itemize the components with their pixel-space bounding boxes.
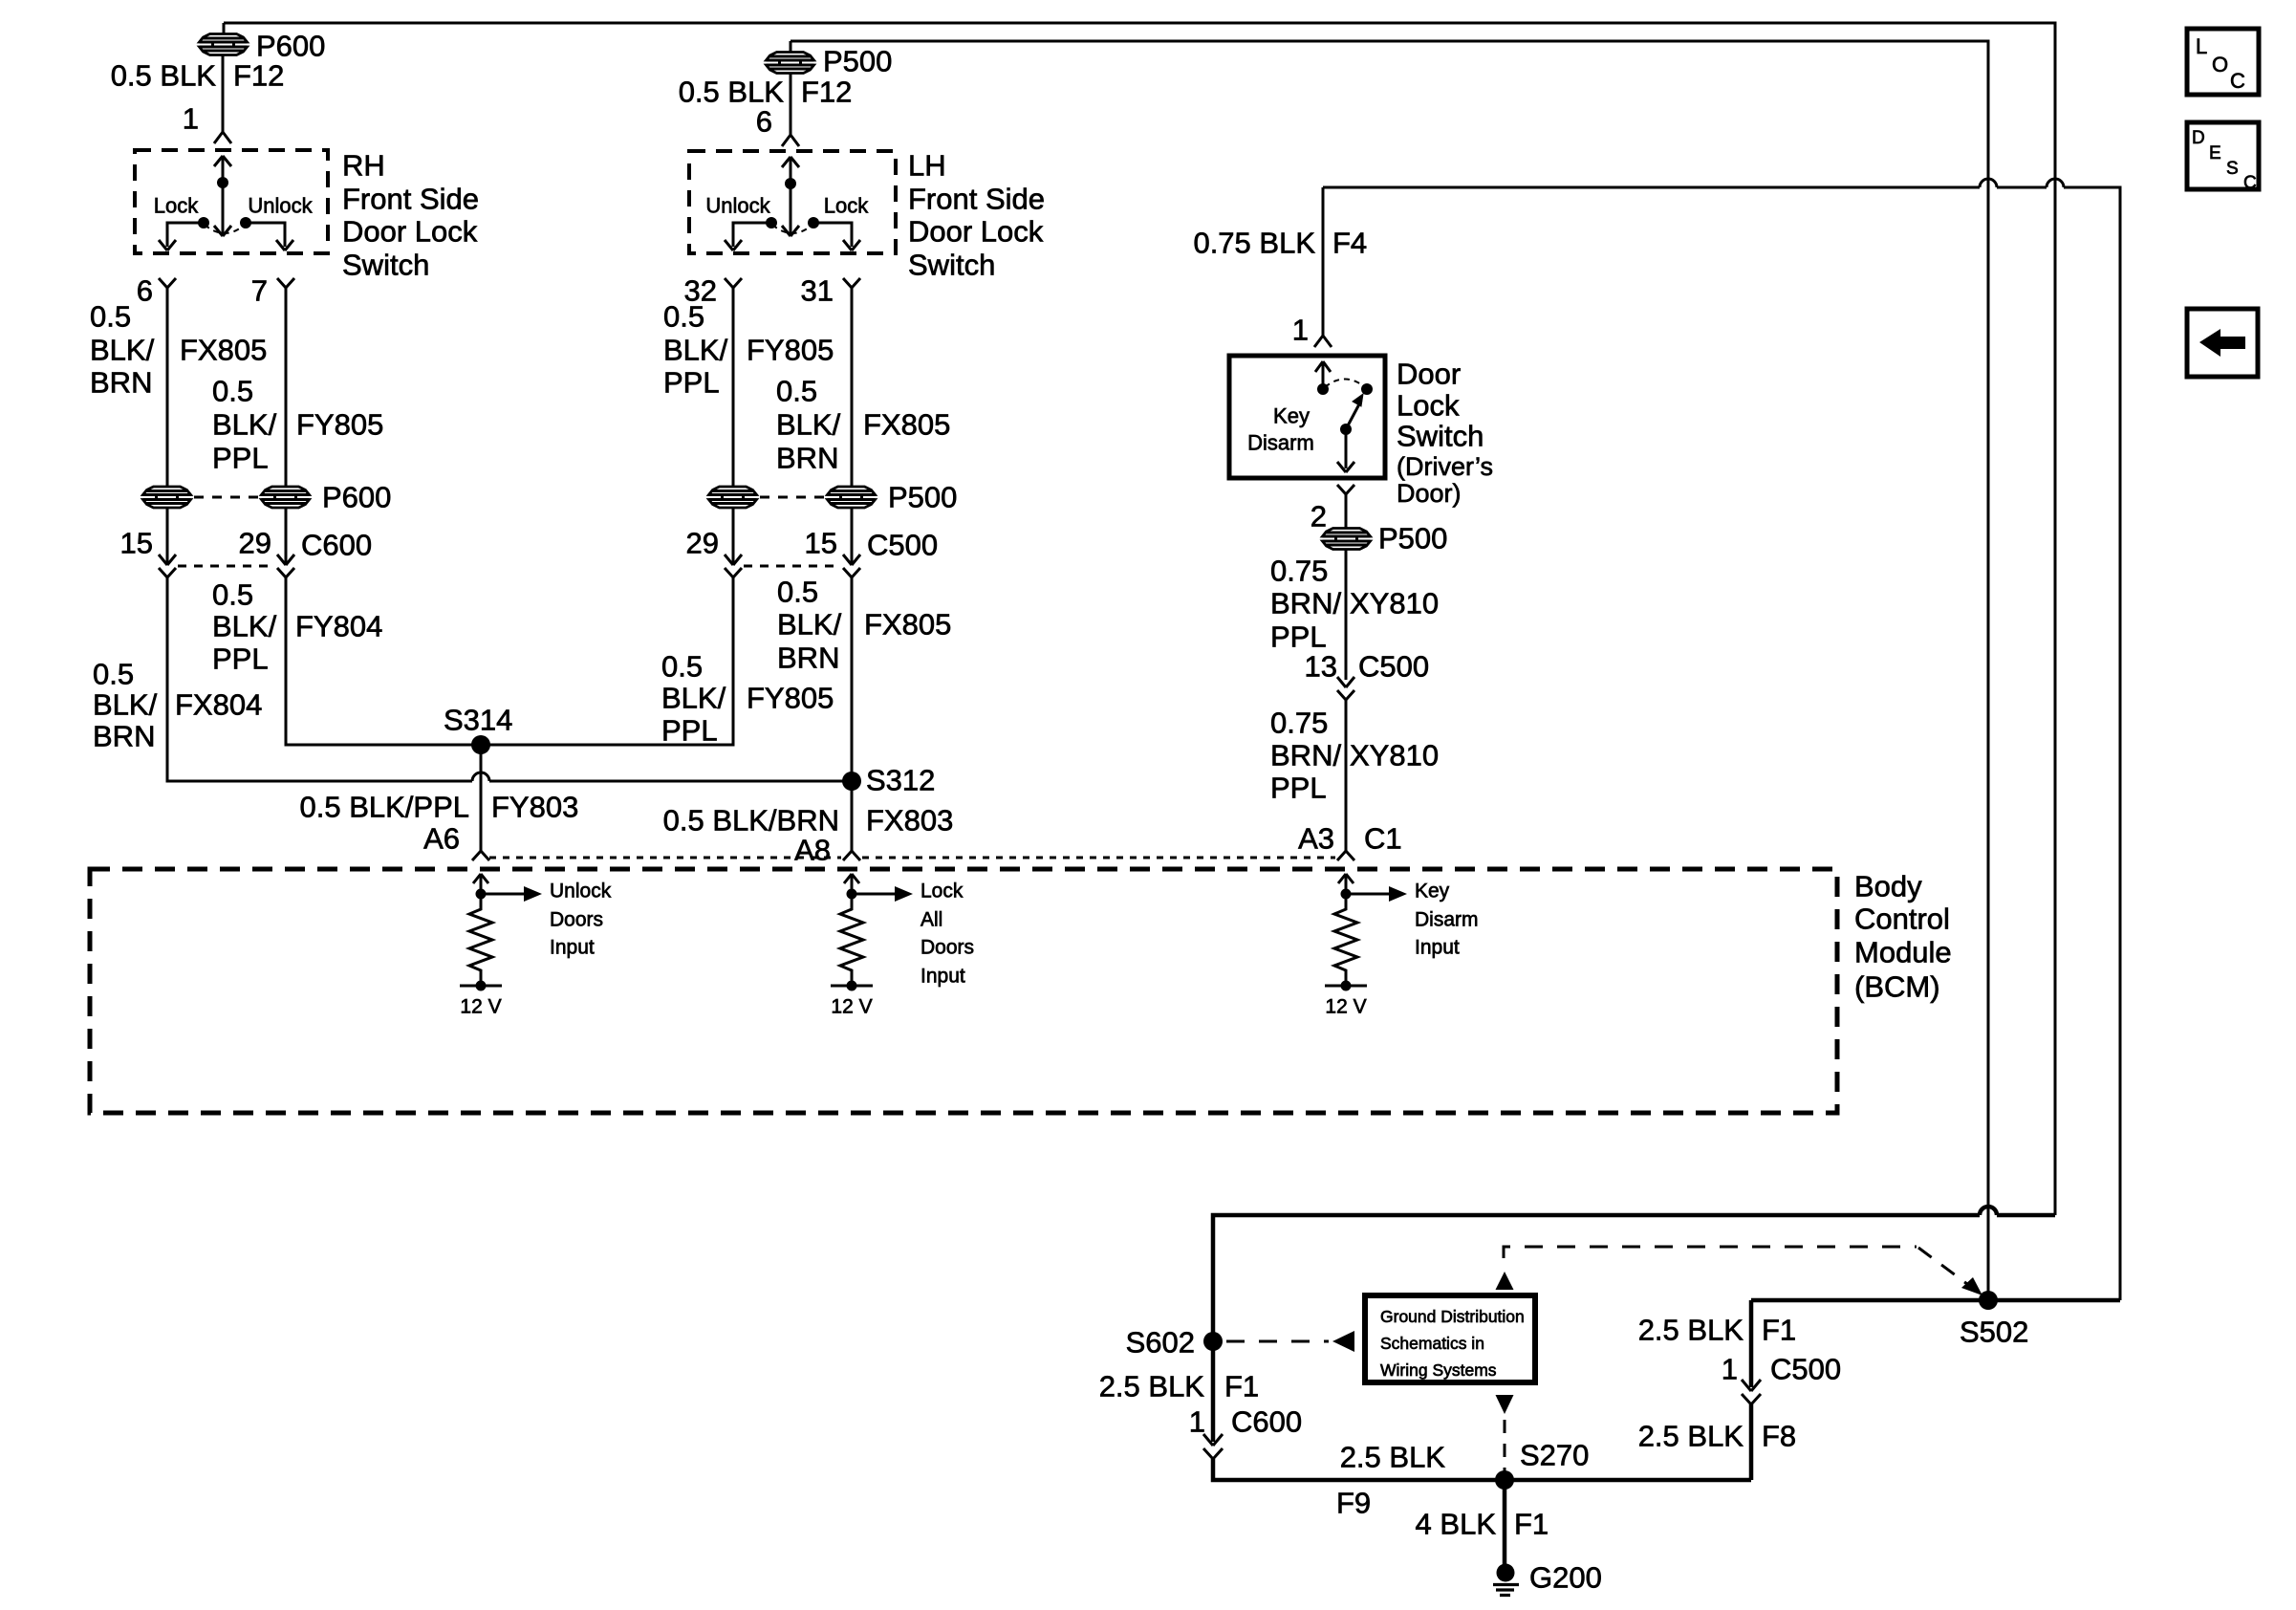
- wire S602 leg down to C600: [1211, 1346, 1216, 1442]
- wire pin6 down to P600 lower: [166, 288, 169, 488]
- svg-text:1: 1: [183, 102, 199, 136]
- dashed link: box bottom to S270: [1504, 1420, 1506, 1472]
- svg-text:1: 1: [1292, 314, 1309, 347]
- connector P600 (lower, right half): [262, 487, 310, 508]
- svg-text:A3: A3: [1298, 822, 1334, 856]
- RH switch: Lock contact branch to pin 6: [159, 217, 209, 250]
- svg-text:2.5 BLK: 2.5 BLK: [1638, 1420, 1744, 1453]
- terminal A8: [843, 851, 860, 860]
- svg-text:PPL: PPL: [661, 714, 718, 748]
- junction S602: [1203, 1332, 1223, 1351]
- DESC reference box: [2187, 122, 2259, 193]
- svg-text:4 BLK: 4 BLK: [1416, 1508, 1497, 1541]
- svg-text:BRN: BRN: [776, 442, 838, 475]
- key switch: movable arm with arrowhead: [1340, 394, 1363, 435]
- wire pin31 down to P500 lower: [851, 288, 854, 488]
- LH switch: Unlock contact branch to pin 32: [725, 217, 777, 250]
- svg-text:S502: S502: [1960, 1316, 2028, 1349]
- svg-text:S: S: [2226, 159, 2239, 179]
- connector P500 (lower, left half): [709, 487, 757, 508]
- terminal pin 2: [1337, 485, 1354, 494]
- terminal pin 31: [843, 278, 860, 288]
- wire: S502 horizontal (left to C500 leg, right to vertical C): [1751, 1298, 2120, 1303]
- svg-text:0.5 BLK: 0.5 BLK: [111, 59, 217, 93]
- wire S270 to G200: [1503, 1480, 1507, 1568]
- svg-text:C600: C600: [1231, 1405, 1302, 1439]
- svg-text:0.5: 0.5: [663, 300, 704, 334]
- svg-text:Disarm: Disarm: [1415, 909, 1479, 931]
- svg-text:P600: P600: [256, 30, 325, 63]
- svg-text:0.5: 0.5: [776, 375, 817, 408]
- wire FY805: pin32 wire down and left to S314: [481, 577, 733, 745]
- svg-text:Switch: Switch: [342, 249, 429, 282]
- svg-text:(BCM): (BCM): [1854, 970, 1940, 1004]
- svg-text:0.5 BLK/PPL: 0.5 BLK/PPL: [299, 791, 469, 824]
- svg-text:Unlock: Unlock: [705, 194, 770, 218]
- svg-text:PPL: PPL: [663, 366, 720, 400]
- dashed link between P500 halves: [760, 496, 824, 499]
- LOC reference box: [2187, 29, 2259, 95]
- svg-text:S314: S314: [444, 704, 512, 737]
- svg-text:F1: F1: [1514, 1508, 1549, 1541]
- svg-text:0.5: 0.5: [212, 578, 253, 612]
- svg-text:31: 31: [801, 274, 834, 308]
- svg-text:Switch: Switch: [1397, 420, 1484, 453]
- RH switch: common pole double arrow: [214, 156, 231, 236]
- BCM input A6: arrow, node, resistor to 12V: [460, 874, 542, 991]
- connector P500 (key column): [1323, 529, 1371, 550]
- svg-text:FX805: FX805: [864, 608, 951, 642]
- svg-text:FY803: FY803: [491, 791, 578, 824]
- RH switch: Unlock contact branch to pin 7: [240, 217, 293, 250]
- svg-text:A8: A8: [794, 834, 831, 867]
- RH Front Side Door Lock Switch box (dashed): [135, 150, 328, 253]
- wire C600 to bottom ground line: [1213, 1459, 1751, 1480]
- svg-text:PPL: PPL: [212, 642, 269, 676]
- wire hop: rail C over vertical A: [2047, 179, 2064, 187]
- wire: rail C (0.75 BLK F4 from door lock switch to right side) with hops over verticals: [1323, 187, 2120, 1300]
- svg-text:12 V: 12 V: [1325, 996, 1366, 1018]
- svg-text:F1: F1: [1762, 1314, 1796, 1347]
- svg-text:C600: C600: [301, 529, 372, 562]
- wire pin7 below P600 to C600: [285, 508, 288, 565]
- svg-text:Unlock: Unlock: [550, 881, 612, 903]
- wire pin 2 to P500: [1345, 494, 1348, 529]
- svg-text:BRN/: BRN/: [1270, 739, 1341, 772]
- svg-text:0.75: 0.75: [1270, 707, 1328, 740]
- svg-text:Lock: Lock: [921, 881, 964, 903]
- svg-text:BLK/: BLK/: [661, 682, 726, 715]
- connector P500 (lower, right half): [828, 487, 876, 508]
- BCM input A8: arrow, node, resistor to 12V: [831, 874, 913, 991]
- svg-text:Door Lock: Door Lock: [908, 215, 1044, 249]
- terminal pin 7: [277, 278, 294, 288]
- svg-text:BRN/: BRN/: [1270, 587, 1341, 620]
- wire: C500 ground leg down: [1749, 1300, 1754, 1387]
- svg-text:Lock: Lock: [154, 194, 199, 218]
- svg-text:F1: F1: [1224, 1370, 1259, 1403]
- svg-text:0.5: 0.5: [777, 576, 818, 609]
- svg-text:F8: F8: [1762, 1420, 1796, 1453]
- svg-text:All: All: [921, 909, 942, 931]
- svg-text:0.5: 0.5: [212, 375, 253, 408]
- BCM input A3: arrow, node, resistor to 12V: [1325, 874, 1407, 991]
- wire below P500 to C500: [1345, 550, 1348, 681]
- wire hop: ground rail over vertical B: [1980, 1207, 1997, 1215]
- arrowhead into S502: [1961, 1277, 1982, 1295]
- svg-text:S312: S312: [866, 764, 935, 797]
- terminal pin 1 of RH switch: [214, 132, 231, 143]
- wire S314 down to A6: [480, 745, 483, 851]
- dashed reference line from S602 to Ground Distribution box: [1226, 1340, 1329, 1343]
- svg-text:12 V: 12 V: [460, 996, 501, 1018]
- svg-text:Front Side: Front Side: [908, 183, 1045, 216]
- svg-text:BLK/: BLK/: [93, 688, 158, 722]
- wire pin31 below P500 to C500: [851, 508, 854, 565]
- Door Lock Switch box (solid): [1229, 356, 1385, 478]
- wire hop: rail C over vertical B: [1980, 179, 1997, 187]
- svg-text:FX804: FX804: [175, 688, 262, 722]
- svg-text:BLK/: BLK/: [777, 608, 842, 642]
- svg-text:Ground Distribution: Ground Distribution: [1380, 1307, 1525, 1326]
- up triangle above Ground Distribution box: [1496, 1272, 1514, 1290]
- svg-text:BLK/: BLK/: [212, 408, 277, 442]
- svg-text:Door: Door: [1397, 358, 1461, 391]
- svg-text:FY805: FY805: [747, 682, 834, 715]
- Ground Distribution Schematics box: [1365, 1295, 1535, 1382]
- junction S270: [1495, 1470, 1514, 1490]
- svg-text:0.5 BLK: 0.5 BLK: [679, 76, 785, 109]
- svg-text:BRN: BRN: [90, 366, 152, 400]
- svg-text:XY810: XY810: [1350, 587, 1439, 620]
- svg-text:Input: Input: [550, 937, 595, 959]
- svg-text:Switch: Switch: [908, 249, 995, 282]
- svg-text:Unlock: Unlock: [248, 194, 313, 218]
- Body Control Module box (dashed): [90, 869, 1837, 1113]
- svg-text:C500: C500: [1358, 650, 1429, 684]
- svg-text:1: 1: [1722, 1353, 1738, 1386]
- wire C500 to bottom ground line: [1749, 1404, 1754, 1480]
- svg-text:FY805: FY805: [296, 408, 383, 442]
- svg-text:LH: LH: [908, 149, 946, 183]
- svg-text:0.75 BLK: 0.75 BLK: [1193, 227, 1315, 260]
- svg-text:Module: Module: [1854, 936, 1952, 969]
- svg-text:G200: G200: [1529, 1561, 1602, 1595]
- svg-text:PPL: PPL: [1270, 772, 1327, 805]
- svg-text:29: 29: [686, 527, 719, 560]
- svg-text:1: 1: [1189, 1405, 1205, 1439]
- svg-text:S270: S270: [1520, 1439, 1589, 1472]
- svg-text:S602: S602: [1126, 1326, 1195, 1360]
- svg-text:6: 6: [137, 274, 153, 308]
- svg-text:(Driver’s: (Driver’s: [1397, 452, 1493, 481]
- svg-text:Door Lock: Door Lock: [342, 215, 478, 249]
- terminal A6: [472, 851, 489, 860]
- wire pin32 down to P500 lower: [732, 288, 735, 488]
- svg-text:Door): Door): [1397, 479, 1462, 508]
- svg-text:BLK/: BLK/: [776, 408, 841, 442]
- connector C500 crossing: arrows and terminals: [725, 555, 860, 577]
- svg-text:P600: P600: [322, 481, 391, 514]
- svg-text:0.75: 0.75: [1270, 555, 1328, 588]
- connector C500 crossing (key column): [1337, 677, 1354, 700]
- svg-text:Schematics in: Schematics in: [1380, 1334, 1484, 1353]
- svg-text:Doors: Doors: [921, 937, 974, 959]
- connector face dashed line (C1) along BCM top: [489, 857, 1335, 859]
- wire pin7 down to P600 lower: [285, 288, 288, 488]
- key switch: dashed throw arc: [1325, 380, 1365, 388]
- svg-text:C1: C1: [1364, 822, 1402, 856]
- wire: top rail B (0.5 BLK F12 from P500 to right side): [791, 41, 1988, 1295]
- svg-text:12 V: 12 V: [831, 996, 872, 1018]
- svg-text:F12: F12: [801, 76, 852, 109]
- junction S502: [1979, 1291, 1998, 1310]
- svg-text:Body: Body: [1854, 870, 1922, 903]
- svg-text:D: D: [2192, 128, 2205, 148]
- wire FX805: pin31 wire down through S312 to A8: [851, 577, 854, 851]
- svg-text:BLK/: BLK/: [90, 334, 155, 367]
- svg-text:P500: P500: [888, 481, 957, 514]
- back-arrow reference box: [2187, 309, 2258, 377]
- svg-text:6: 6: [756, 105, 772, 139]
- svg-text:RH: RH: [342, 149, 385, 183]
- svg-text:XY810: XY810: [1350, 739, 1439, 772]
- terminal pin 32: [725, 278, 742, 288]
- svg-text:PPL: PPL: [1270, 620, 1327, 654]
- svg-text:C500: C500: [1770, 1353, 1841, 1386]
- svg-text:2.5 BLK: 2.5 BLK: [1340, 1441, 1446, 1474]
- svg-text:Lock: Lock: [1397, 389, 1460, 423]
- svg-text:Input: Input: [921, 966, 965, 988]
- wire: ground rail from vertical A to S602 leg (with hop over vertical B): [1213, 1215, 2055, 1337]
- svg-text:FY805: FY805: [747, 334, 834, 367]
- svg-text:BRN: BRN: [93, 720, 155, 753]
- svg-text:Key: Key: [1415, 881, 1450, 903]
- svg-text:Doors: Doors: [550, 909, 603, 931]
- connector C600 crossing (ground leg): [1203, 1434, 1223, 1459]
- svg-text:7: 7: [251, 274, 268, 308]
- wire FX804: pin15 wire down and right to S312: [167, 577, 852, 781]
- connector P600 (lower, left half): [143, 487, 191, 508]
- terminal pin 1 of key switch: [1314, 336, 1332, 347]
- connector C600 crossing: arrows and terminals: [159, 555, 294, 577]
- svg-text:0.5: 0.5: [661, 650, 703, 684]
- svg-text:2: 2: [1310, 500, 1327, 533]
- svg-text:F9: F9: [1336, 1487, 1371, 1520]
- terminal A3: [1337, 851, 1354, 860]
- junction S312: [842, 772, 861, 791]
- LH switch: dashed throw arc: [772, 225, 812, 233]
- svg-text:Wiring Systems: Wiring Systems: [1380, 1360, 1497, 1380]
- terminal pin 6 of LH switch: [782, 135, 799, 146]
- svg-text:FX805: FX805: [863, 408, 950, 442]
- ground G200 symbol: [1493, 1564, 1519, 1596]
- svg-text:P500: P500: [823, 45, 892, 78]
- svg-text:Lock: Lock: [824, 194, 869, 218]
- svg-text:FY804: FY804: [295, 610, 382, 643]
- svg-text:Input: Input: [1415, 937, 1460, 959]
- wire 0.75 BLK F4 down to key switch: [1322, 187, 1325, 336]
- wire hop: S312 line over A6 vertical: [472, 772, 489, 781]
- svg-text:2.5 BLK: 2.5 BLK: [1638, 1314, 1744, 1347]
- wire pin6 below P600 to C600: [166, 508, 169, 565]
- svg-text:Control: Control: [1854, 903, 1950, 936]
- svg-text:BRN: BRN: [777, 642, 839, 675]
- RH switch: dashed throw arc: [205, 225, 245, 233]
- svg-text:FX805: FX805: [180, 334, 267, 367]
- svg-text:C: C: [2243, 173, 2257, 193]
- svg-text:BLK/: BLK/: [212, 610, 277, 643]
- svg-text:29: 29: [239, 527, 271, 560]
- svg-text:PPL: PPL: [212, 442, 269, 475]
- svg-text:FX803: FX803: [866, 804, 953, 838]
- svg-text:E: E: [2209, 143, 2221, 163]
- terminal pin 6: [159, 278, 176, 288]
- wire below C500 to A3: [1345, 700, 1348, 851]
- svg-text:13: 13: [1305, 650, 1337, 684]
- svg-text:BLK/: BLK/: [663, 334, 728, 367]
- key switch: fixed contact with up arrow: [1315, 361, 1331, 395]
- svg-text:15: 15: [805, 527, 837, 560]
- connector C500 crossing (ground leg): [1742, 1380, 1761, 1404]
- svg-text:O: O: [2212, 53, 2228, 76]
- arrowhead (left-pointing) at Ground Distribution box: [1332, 1331, 1354, 1352]
- svg-text:Disarm: Disarm: [1247, 431, 1314, 455]
- wire: top rail A (0.5 BLK F12 from P600 to right side): [224, 23, 2055, 1215]
- connector P500 (top, LH column): [767, 41, 814, 135]
- svg-text:F12: F12: [233, 59, 284, 93]
- LH switch: Lock contact branch to pin 31: [808, 217, 860, 250]
- connector P600 (top, RH column): [200, 23, 248, 132]
- svg-text:2.5 BLK: 2.5 BLK: [1099, 1370, 1205, 1403]
- svg-text:0.5 BLK/BRN: 0.5 BLK/BRN: [663, 804, 839, 838]
- svg-text:P500: P500: [1378, 522, 1447, 555]
- wire pin32 below P500 to C500: [732, 508, 735, 565]
- svg-text:C500: C500: [867, 529, 938, 562]
- svg-text:0.5: 0.5: [93, 658, 134, 691]
- key switch: pole down arrow to pin 2: [1345, 429, 1348, 468]
- svg-text:C: C: [2230, 69, 2245, 93]
- dashed link between P600 halves: [194, 496, 258, 499]
- svg-text:F4: F4: [1332, 227, 1367, 260]
- dashed link: box top corner to S502: [1504, 1247, 1917, 1258]
- svg-text:A6: A6: [423, 822, 460, 856]
- LH switch: common pole double arrow: [782, 157, 799, 236]
- key switch: second fixed contact: [1361, 383, 1373, 395]
- svg-text:Front Side: Front Side: [342, 183, 479, 216]
- wire FY804: pin29 wire down and right to S314: [286, 577, 481, 745]
- junction S314: [471, 735, 490, 754]
- svg-text:15: 15: [120, 527, 153, 560]
- LH Front Side Door Lock Switch box (dashed): [689, 151, 896, 253]
- svg-text:Key: Key: [1273, 404, 1310, 428]
- svg-text:L: L: [2196, 34, 2207, 58]
- down triangle below Ground Distribution box: [1496, 1395, 1514, 1414]
- svg-text:0.5: 0.5: [90, 300, 131, 334]
